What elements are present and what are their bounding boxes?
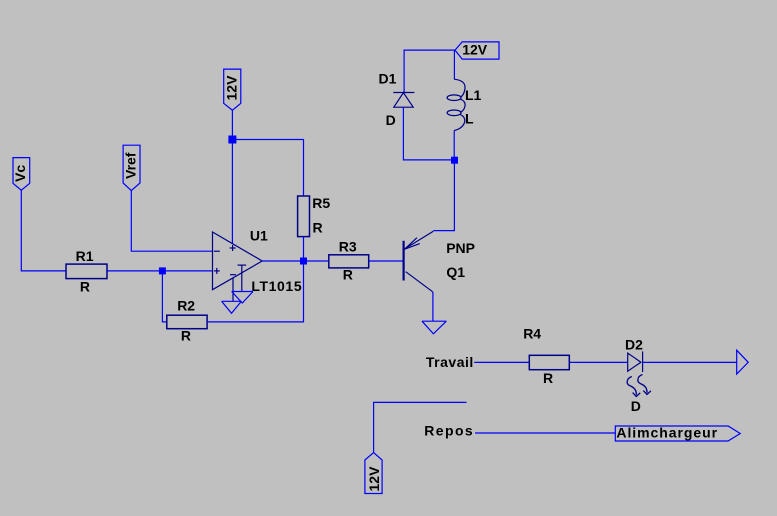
node D junction <box>451 157 458 164</box>
svg-text:R: R <box>181 328 191 344</box>
svg-text:PNP: PNP <box>446 240 475 256</box>
wire bottom 12V tag up and right <box>374 402 467 452</box>
svg-text:Q1: Q1 <box>446 264 465 280</box>
svg-text:L: L <box>465 110 474 126</box>
transistor Q1 <box>404 231 434 291</box>
wire 12V to L1 top <box>453 50 455 79</box>
power tag 12V (top right) <box>455 42 499 59</box>
resistor R1 <box>66 264 107 279</box>
svg-text:D1: D1 <box>379 71 397 87</box>
ground (Q1 collector) <box>422 321 446 334</box>
resistor R2 <box>167 315 207 329</box>
ground (op-amp pin 2) <box>222 301 242 313</box>
svg-text:R1: R1 <box>76 248 94 264</box>
wire Travail to R4 <box>474 361 529 363</box>
svg-text:R4: R4 <box>523 325 541 341</box>
wire node A to op-amp non-inverting input <box>162 270 212 272</box>
resistor R4 <box>529 355 569 369</box>
svg-text:D: D <box>386 112 396 128</box>
wire node B to R3 <box>304 260 329 262</box>
svg-text:Vref: Vref <box>123 152 139 179</box>
svg-text:R: R <box>543 370 553 386</box>
svg-text:12V: 12V <box>366 466 382 492</box>
net tag Vc <box>13 158 30 191</box>
output terminal arrow <box>737 350 749 374</box>
svg-text:R2: R2 <box>177 298 195 314</box>
svg-text:12V: 12V <box>462 41 488 57</box>
wire Vref to op-amp inverting input <box>131 191 212 252</box>
op-amp U1 <box>213 232 263 290</box>
node C junction <box>228 136 236 144</box>
power tag 12V (above op-amp) <box>224 69 241 110</box>
wire Repos to Alimchargeur tag <box>475 432 615 434</box>
wire R3 to Q1 base <box>369 260 403 262</box>
wire D2 to output terminal <box>643 361 737 363</box>
svg-text:R3: R3 <box>339 238 357 254</box>
diode D1 <box>393 93 414 108</box>
power tag 12V (bottom) <box>365 453 382 494</box>
LED D2 <box>628 351 643 372</box>
node A junction <box>159 267 166 274</box>
wire Vc to R1 <box>21 190 66 271</box>
svg-text:R: R <box>80 279 90 295</box>
op-amp strobe pin wire <box>241 265 243 291</box>
resistor R3 <box>329 255 369 268</box>
svg-text:LT1015: LT1015 <box>251 278 302 294</box>
svg-text:R5: R5 <box>312 195 330 211</box>
svg-text:Alimchargeur: Alimchargeur <box>616 425 718 441</box>
wire node A down to R2 <box>162 274 166 322</box>
resistor R5 <box>298 196 310 237</box>
svg-text:L1: L1 <box>465 87 482 103</box>
wire 12V tag to node C <box>231 110 233 139</box>
LED arrows of D2 <box>627 375 651 397</box>
svg-text:Vc: Vc <box>12 165 28 182</box>
wire L1 bottom to node D <box>453 131 455 161</box>
svg-text:D: D <box>631 398 641 414</box>
svg-text:R: R <box>343 266 353 282</box>
node B junction <box>300 258 307 265</box>
svg-text:Repos: Repos <box>424 423 474 439</box>
wire 12V to D1 top <box>404 50 455 92</box>
wire op-amp output to node B <box>262 260 303 262</box>
wire R1 to node A <box>107 270 162 272</box>
wire node C to R5 top <box>232 140 303 197</box>
net tag Alimchargeur <box>615 426 740 441</box>
net tag Vref <box>123 145 140 190</box>
wire Q1 collector to ground <box>432 292 434 321</box>
wire R5 bottom to node B <box>303 237 305 261</box>
wire R2 to output node B <box>207 261 303 322</box>
ground (op-amp pin 1) <box>232 292 253 304</box>
inductor L1 <box>447 79 465 130</box>
wire R4 to D2 <box>569 361 627 363</box>
op-amp V- pin wire <box>232 278 234 301</box>
svg-text:12V: 12V <box>223 75 239 101</box>
wire Q1 emitter to node D <box>433 160 454 230</box>
wire D1 bottom to node D <box>403 107 451 160</box>
svg-text:Travail: Travail <box>426 354 474 370</box>
svg-text:R: R <box>313 220 323 236</box>
svg-text:U1: U1 <box>250 227 268 243</box>
wire node C to op-amp V+ pin <box>231 140 233 244</box>
svg-text:D2: D2 <box>625 336 643 352</box>
